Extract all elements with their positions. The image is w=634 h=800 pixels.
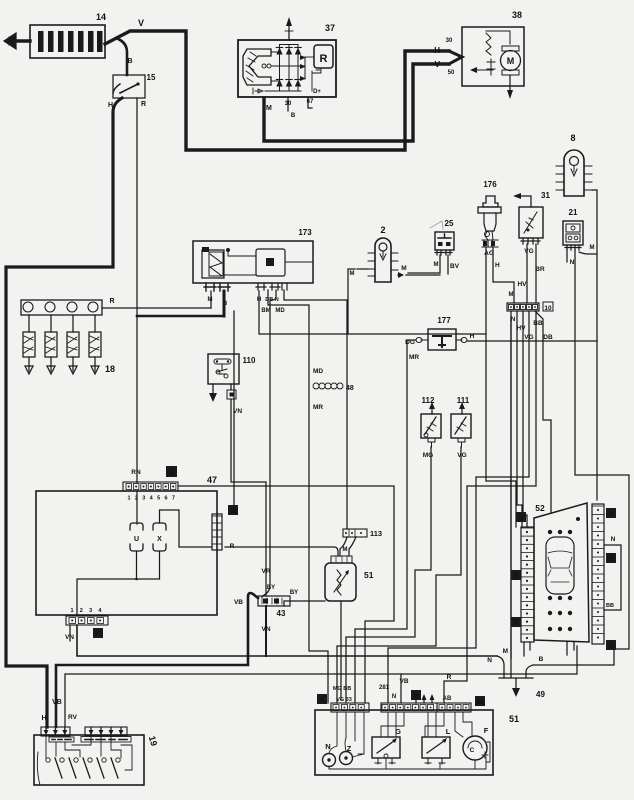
wire VR (17 to 43) [261,290,276,597]
47 connector B [212,505,238,550]
wire R 47-B to idle sensor [225,547,338,556]
wires 113 to sensor 51 [340,537,356,556]
wire V (14 to 38 terminal 30) [105,18,449,150]
svg-text:173: 173 [298,228,312,237]
wire VB thick 43 to 19 [52,593,258,727]
wire BR 31 to 10 [535,244,545,303]
lamp Z [340,744,353,765]
capacitor 177 [405,316,467,350]
sensor 8 [556,133,592,196]
sensor 51 (injection) [325,556,374,601]
wire into B connector label [233,311,235,506]
svg-text:M: M [590,245,595,251]
svg-text:B: B [127,58,132,65]
47 internal wires [77,510,212,616]
svg-text:1: 1 [127,496,130,502]
svg-text:D+: D+ [313,89,321,95]
svg-text:R: R [447,674,452,681]
svg-text:MR: MR [409,354,419,361]
svg-text:N: N [392,694,396,700]
svg-text:1: 1 [70,608,73,614]
wire M (2 to 25) [398,265,440,278]
svg-text:67: 67 [307,99,314,105]
svg-text:25: 25 [445,219,454,228]
svg-text:VG: VG [524,248,533,255]
svg-text:M: M [266,105,272,112]
svg-text:21: 21 [569,208,578,217]
svg-text:M: M [350,271,355,277]
svg-text:RN: RN [131,469,141,476]
svg-text:R: R [109,298,114,305]
svg-text:E: E [514,573,519,580]
wire H 176 to connector 10 [493,247,527,303]
svg-text:15: 15 [147,73,156,82]
svg-text:47: 47 [207,475,217,485]
alternator pin 67 stub [307,98,314,108]
svg-text:Z: Z [347,744,352,753]
svg-text:A: A [608,511,613,518]
svg-text:VB: VB [234,599,243,606]
svg-text:M: M [503,648,508,655]
svg-text:VG: VG [457,452,466,459]
svg-text:7: 7 [172,496,175,502]
svg-text:C: C [470,747,475,754]
47 bottom pin1 stub [69,625,71,641]
svg-text:110: 110 [243,356,256,365]
svg-text:M: M [509,292,514,298]
switch 25 [430,219,454,255]
svg-text:B: B [413,693,418,700]
wire from 8 down right side [592,190,597,341]
svg-text:176: 176 [483,180,497,189]
svg-text:BV: BV [450,263,460,270]
52 boxed labels D E F A B C [516,512,526,522]
wire 21 left pin [566,250,568,262]
wire RV long [41,646,577,727]
spark plugs 18 [23,315,115,374]
wire BY 43 right [284,590,325,606]
alternator pin 30 stub B [285,98,296,119]
wire R (15 down to 47 RN) [137,98,146,483]
svg-text:MD: MD [313,368,323,375]
svg-text:6: 6 [164,496,167,502]
110 ground arrow [209,384,217,402]
svg-text:DB: DB [543,334,553,341]
connector 43 [258,585,290,618]
svg-text:N: N [325,742,330,751]
ECU 52 [534,503,589,642]
wire 281 [379,311,529,703]
wire VN from 47 [65,625,497,656]
svg-text:48: 48 [346,385,354,392]
47 top strip to cluster wire [178,486,394,703]
wire 47 pin3 to relay U [136,491,138,524]
svg-text:49: 49 [536,690,545,699]
svg-text:R: R [141,101,146,108]
svg-text:BY: BY [290,590,298,596]
svg-text:VN: VN [261,626,270,633]
wire 2 left to junction line [348,269,368,334]
svg-text:177: 177 [437,316,451,325]
svg-text:52: 52 [535,503,545,513]
instrument cluster 51 [315,710,519,775]
svg-text:111: 111 [457,396,470,405]
svg-text:H: H [434,46,440,55]
distributor cap bar [21,300,102,315]
svg-text:BY: BY [267,585,275,591]
svg-text:HV: HV [516,325,526,332]
52 dots [548,517,580,631]
cluster middle strip [381,690,437,712]
relay X in 47 [153,523,166,551]
svg-text:10: 10 [544,305,552,312]
wire VN 110 to 43 [231,384,266,596]
svg-text:U: U [134,536,139,543]
svg-text:H: H [470,333,475,340]
svg-text:38: 38 [512,10,522,20]
svg-text:BM: BM [261,308,270,314]
svg-text:112: 112 [422,396,435,405]
110 connector [227,390,236,399]
wire 8/21 junction down to 52 [596,341,598,500]
wire from 17 pin to 113 [284,290,347,529]
starter motor 38 [434,10,524,99]
svg-text:B: B [539,656,544,663]
relay U in 47 [130,523,143,551]
svg-text:B: B [608,556,613,563]
wire VG 31 to 10 [526,244,528,303]
svg-text:5: 5 [157,496,160,502]
wire MR from 177 left to cluster [355,340,419,703]
svg-text:C: C [95,631,100,638]
wire M pin to R line [210,291,212,308]
svg-text:MD: MD [275,308,285,314]
wire B (14 to 15) [116,38,133,75]
svg-text:3: 3 [142,496,145,502]
ground 49 [487,317,614,699]
svg-text:H: H [41,715,46,722]
sensor 2 [368,225,398,282]
47 bottom connector C [66,608,108,638]
52 right connector ladder [592,504,604,644]
wire from sensor 51 down [340,601,342,700]
52 car outline [546,537,574,594]
relay 21 [563,208,583,245]
switch 111 [451,396,471,459]
svg-text:H: H [495,262,500,269]
wire M (alternator to 38 terminal 50) [264,64,449,141]
svg-text:VN: VN [65,634,74,641]
svg-text:VB: VB [399,678,408,685]
svg-text:14: 14 [96,12,106,22]
svg-text:30: 30 [446,38,453,44]
wire H (15 to 19, left trunk) [6,98,122,727]
svg-text:V: V [138,18,144,28]
17 module pins [256,283,287,314]
svg-text:VG 33: VG 33 [336,697,352,703]
svg-text:AB: AB [443,696,452,702]
svg-text:L: L [446,727,451,736]
52 left connector ladder [521,527,534,642]
svg-text:N: N [570,259,575,266]
wire N loop on 52 right [604,536,621,610]
gauge F [463,726,489,760]
svg-text:M: M [401,265,406,272]
alternator top arrow [285,17,293,40]
sensor 31 [513,191,550,255]
svg-text:BB: BB [606,603,614,609]
svg-text:50: 50 [448,70,455,76]
ignition switch 19 [34,735,159,785]
52 bottom stubs [567,642,574,655]
svg-text:43: 43 [277,609,286,618]
wire B thick (17 coil pin down) [223,291,226,316]
wires below 10 [511,311,516,658]
svg-text:M: M [343,547,348,553]
svg-text:51: 51 [509,714,519,724]
svg-text:N: N [611,536,616,543]
svg-text:M: M [507,56,515,66]
19 internals [37,736,132,785]
wire R line (bar to 17 M pin) [102,298,211,308]
svg-text:VB: VB [52,699,62,706]
svg-text:BR: BR [535,266,545,273]
wire 176 left pin down to 52 D [486,247,516,527]
svg-text:37: 37 [325,23,335,33]
svg-text:M: M [434,262,439,268]
svg-text:X: X [157,536,162,543]
svg-text:C: C [608,643,613,650]
svg-text:18: 18 [105,364,115,374]
gauge L [422,727,451,764]
wire MG 112 to cluster [346,447,431,703]
lamp N [323,742,336,767]
wire H from 177 right [467,333,597,341]
svg-text:HV: HV [517,281,527,288]
svg-text:F: F [514,620,519,627]
svg-text:N: N [487,657,492,664]
svg-text:V: V [435,60,441,69]
svg-text:M: M [477,699,483,706]
svg-text:8: 8 [570,133,575,143]
svg-text:M: M [208,297,213,303]
svg-text:2: 2 [380,225,385,235]
relay 110 [208,354,256,384]
connector 10 [507,302,553,312]
svg-text:A: A [169,470,174,477]
svg-text:A: A [319,697,324,704]
wire H junction line [259,291,486,334]
svg-text:MG BB: MG BB [333,686,351,692]
wire VN 43 down [261,606,270,656]
wire R cluster [444,311,536,703]
svg-text:113: 113 [370,529,382,538]
switch 112 [421,396,441,459]
cluster right strip [437,696,485,712]
ECU 47 [36,466,217,615]
wire DB to 52 top [535,311,553,512]
svg-text:30: 30 [285,101,292,107]
wire BV from 25 [448,255,460,274]
wire line2 (15R to 17 B pin) [137,315,224,318]
19 left strip [41,727,70,736]
svg-text:51: 51 [364,570,374,580]
connector 113 [343,529,382,538]
sensor 176 [478,180,501,257]
52 ladder bottom stubs [524,642,530,656]
svg-text:281: 281 [379,685,390,691]
ignition coil unit 173 [193,228,313,283]
svg-text:MR: MR [313,404,323,411]
21 pins [565,245,581,250]
svg-text:R: R [320,53,328,65]
wire VG 111 to cluster [337,447,461,703]
cluster internal wires [329,712,490,769]
17 coil pins M B [204,283,230,307]
switch 15 [113,73,156,98]
alternator 37 [238,23,336,97]
wire M from 25 [408,255,440,273]
svg-text:F: F [484,726,489,735]
wire M 21 to 8 wire [579,245,597,254]
wire VB cluster [399,674,408,703]
cluster left strip [317,686,369,712]
svg-text:MG: MG [423,452,433,459]
svg-text:B: B [291,113,296,119]
resistor block 14 [30,12,106,58]
wire N from 21 down to 52 [570,250,629,649]
svg-text:RV: RV [68,714,78,721]
svg-text:D: D [518,515,523,522]
19 right strip [85,727,127,736]
svg-text:H: H [108,102,113,109]
svg-text:3: 3 [89,608,92,614]
gauge G [372,727,401,764]
svg-text:2: 2 [80,608,83,614]
svg-text:31: 31 [541,191,550,200]
svg-text:B: B [230,508,235,515]
battery feed arrow [4,33,30,49]
wire MD with resistive lead 48 [268,290,354,703]
svg-text:BB: BB [533,320,543,327]
